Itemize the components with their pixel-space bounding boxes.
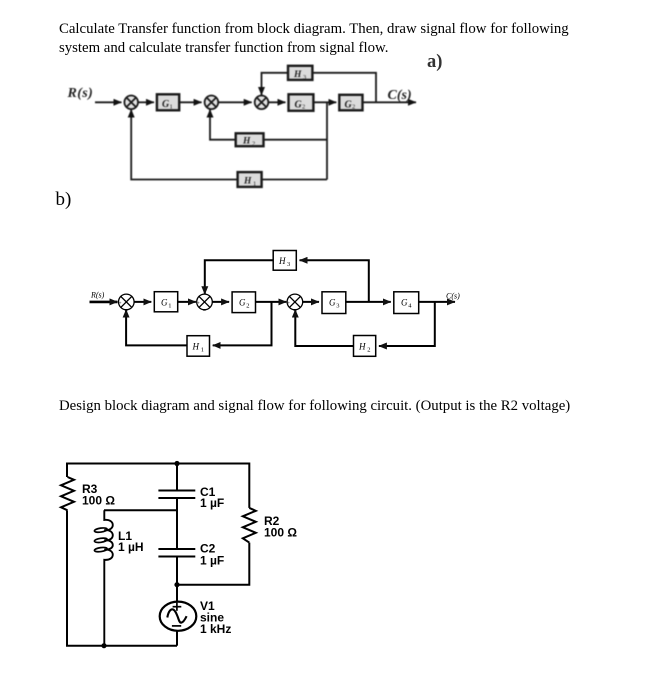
inductor L1 bbox=[94, 510, 113, 645]
wire sum3 to G2 bbox=[268, 101, 285, 103]
svg-text:1: 1 bbox=[168, 303, 171, 310]
svg-text:2: 2 bbox=[302, 104, 305, 111]
summing junction S3 bbox=[255, 96, 269, 110]
wire G2 to sum3 with node bbox=[256, 301, 287, 303]
block G2b bbox=[339, 95, 362, 111]
svg-text:G: G bbox=[329, 298, 336, 308]
wire R(s) to sum1 bbox=[95, 101, 122, 103]
wire bottom bbox=[66, 645, 177, 647]
summing junction B1 bbox=[119, 294, 135, 314]
svg-text:1 µH: 1 µH bbox=[118, 540, 144, 554]
svg-text:H: H bbox=[242, 137, 251, 147]
wire C1 to junction bbox=[176, 498, 178, 549]
wire H1 right bbox=[262, 179, 327, 181]
summing junction S2 bbox=[205, 96, 219, 110]
wire V1 to bottom bbox=[176, 630, 178, 645]
wire sum2 to sum3 bbox=[218, 101, 252, 103]
wire G2 to G2b with node bbox=[313, 101, 336, 103]
wire H1 to sum1 bbox=[131, 110, 237, 180]
svg-text:100 Ω: 100 Ω bbox=[82, 494, 115, 508]
svg-text:C(s): C(s) bbox=[388, 88, 412, 103]
block H2 bbox=[236, 133, 264, 147]
resistor R3 bbox=[61, 477, 74, 510]
wire right bottom bbox=[177, 543, 249, 585]
svg-text:1 µF: 1 µF bbox=[200, 496, 224, 510]
wire input to sum1 bbox=[90, 301, 118, 304]
block G1 bbox=[157, 94, 179, 110]
summing junction S1 bbox=[124, 96, 138, 110]
wire H2 to sum2 bbox=[210, 110, 236, 140]
block H3 b bbox=[273, 251, 296, 271]
wire G3 to G4 with node bbox=[346, 301, 391, 303]
wire H3 pickup b bbox=[300, 260, 369, 302]
node bottom junction bbox=[101, 643, 106, 648]
svg-text:+: + bbox=[287, 301, 290, 307]
wire G2b to C(s) bbox=[363, 101, 417, 103]
wire H2 to sum3 b bbox=[295, 310, 353, 346]
svg-text:3: 3 bbox=[287, 261, 290, 268]
svg-text:1 µF: 1 µF bbox=[200, 554, 224, 568]
wire sum3 to G3 bbox=[303, 301, 319, 303]
wire right top bbox=[248, 463, 250, 508]
wire H2 right bbox=[264, 139, 328, 141]
wire sum1 to G1 bbox=[134, 301, 151, 303]
svg-text:2: 2 bbox=[352, 104, 355, 111]
capacitor C1 bbox=[158, 491, 195, 499]
block G2 bbox=[289, 94, 314, 111]
svg-text:1: 1 bbox=[253, 181, 256, 188]
wire node to H2 and H1 pickup bbox=[326, 102, 328, 179]
wire mid top bbox=[176, 464, 178, 491]
summing junction B2 bbox=[197, 294, 213, 314]
svg-text:3: 3 bbox=[303, 74, 306, 81]
svg-text:+: + bbox=[197, 301, 200, 307]
svg-text:G: G bbox=[161, 298, 168, 308]
wire left top bbox=[66, 463, 68, 478]
svg-text:R(s): R(s) bbox=[90, 291, 105, 300]
wire sum1 to G1 bbox=[138, 101, 154, 103]
wire C2 to node bbox=[176, 557, 178, 602]
svg-text:H: H bbox=[243, 177, 252, 187]
block G3 b bbox=[322, 292, 346, 314]
resistor R2 bbox=[243, 508, 256, 543]
wire G1 to sum2 bbox=[178, 301, 196, 303]
wire H3 to sum3 bbox=[262, 73, 289, 95]
svg-text:2: 2 bbox=[367, 347, 370, 354]
svg-text:G: G bbox=[239, 298, 246, 308]
svg-text:H: H bbox=[192, 342, 200, 352]
block G4 b bbox=[394, 292, 419, 314]
wire H2 pickup b bbox=[379, 302, 435, 346]
wire top bbox=[67, 463, 249, 465]
block H1 bbox=[238, 172, 262, 187]
wire H1 pickup b bbox=[213, 302, 272, 346]
capacitor C2 bbox=[158, 549, 195, 557]
svg-text:3: 3 bbox=[336, 303, 339, 310]
svg-text:1: 1 bbox=[170, 103, 173, 110]
wire H3 pickup bbox=[312, 73, 376, 103]
svg-text:1: 1 bbox=[201, 347, 204, 354]
source V1 bbox=[160, 602, 197, 631]
block G1 b bbox=[154, 292, 177, 312]
block H3 bbox=[288, 66, 312, 81]
svg-text:H: H bbox=[358, 342, 366, 352]
svg-text:100 Ω: 100 Ω bbox=[264, 526, 297, 540]
svg-text:H: H bbox=[293, 70, 302, 80]
svg-text:2: 2 bbox=[246, 303, 249, 310]
block G2 b bbox=[232, 292, 255, 313]
wire G1 to sum2 bbox=[179, 101, 201, 103]
wire H3 to sum2 b bbox=[205, 260, 273, 294]
block H2 b bbox=[354, 336, 376, 357]
svg-text:R(s): R(s) bbox=[67, 86, 94, 101]
svg-text:1 kHz: 1 kHz bbox=[200, 622, 231, 636]
svg-text:C(s): C(s) bbox=[446, 292, 460, 301]
svg-text:H: H bbox=[278, 256, 286, 266]
node mid junction bbox=[174, 582, 179, 587]
wire H1 to sum1 b bbox=[126, 310, 187, 346]
svg-text:G: G bbox=[401, 298, 408, 308]
wire G4 to C(s) bbox=[419, 301, 455, 303]
summing junction B3 bbox=[287, 294, 303, 314]
block H1 b bbox=[187, 336, 210, 357]
wire left bottom bbox=[66, 511, 68, 646]
svg-text:+: + bbox=[119, 301, 122, 307]
svg-text:2: 2 bbox=[252, 141, 255, 148]
node top junction bbox=[174, 461, 179, 466]
wire junction to L1 bbox=[104, 509, 177, 511]
wire sum2 to G2 bbox=[212, 301, 229, 303]
